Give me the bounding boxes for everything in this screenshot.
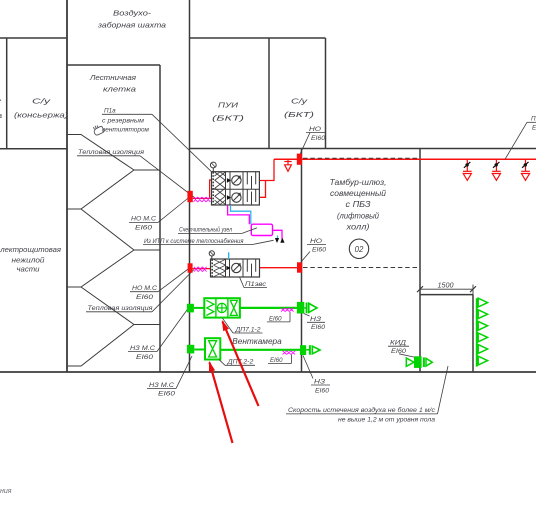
- cyan pipe out of meter: [277, 236, 279, 241]
- room label: С/у (консьержа): [14, 97, 69, 120]
- leader НО EI60 lower: [301, 252, 310, 263]
- label Тепловая изоляция lower: [86, 305, 153, 312]
- green node left ДП7.2-2 (on wall x=189.5): [187, 345, 194, 354]
- svg-text:(консьержа): (консьержа): [14, 111, 69, 120]
- label П1 fragment top right: [527, 116, 536, 132]
- label П1эвс: [244, 281, 267, 288]
- svg-text:02: 02: [355, 245, 364, 254]
- wall: staircase top, y=65: [67, 64, 160, 66]
- red annotation arrow to ДП7.2-2: [210, 363, 233, 444]
- green duct to damper box ДП7.1-2: [194, 307, 204, 309]
- svg-text:КИД: КИД: [390, 340, 407, 347]
- svg-text:Из ИТП к системе теплоснабжен: Из ИТП к системе теплоснабжения: [144, 237, 244, 245]
- svg-text:е: е: [0, 96, 1, 105]
- room label: Венткамера: [232, 336, 282, 346]
- leader ДП7.2-2: [219, 360, 225, 366]
- wall: left rooms divider y=148.7: [0, 148, 67, 150]
- wall: niche top y=294.6: [420, 294, 473, 296]
- svg-text:(БКТ): (БКТ): [284, 110, 315, 119]
- wall: tambour room left x=301.5: [301, 149, 303, 373]
- svg-text:EI60: EI60: [311, 135, 326, 142]
- KID valve assembly: [406, 356, 432, 368]
- heat meter box (Счетчительный узел): [251, 224, 272, 235]
- wall: top-right horizontal y=38: [190, 37, 326, 39]
- leader Счетчительный узел: [242, 228, 257, 234]
- smoke damper unit ДП7.2-2: [205, 338, 220, 359]
- svg-text:Е: Е: [532, 125, 536, 132]
- svg-text:1500: 1500: [438, 283, 454, 290]
- red pipe AHU П1а row2 out: [260, 181, 266, 198]
- svg-text:НЗ М.С: НЗ М.С: [130, 345, 156, 352]
- svg-text:П1эвс: П1эвс: [245, 281, 267, 288]
- note Скорость истечения воздуха: [286, 406, 438, 424]
- red pipe into AHU П1а: [193, 180, 212, 198]
- svg-text:с резервным: с резервным: [102, 118, 145, 125]
- edge text fragment е: [0, 96, 1, 105]
- label НО М.С EI60 second: [130, 285, 158, 301]
- svg-text:EI60: EI60: [158, 391, 176, 398]
- staircase duct zigzag: [67, 135, 160, 367]
- cyan heat pipe from AHU: [231, 205, 251, 224]
- green node right ДП7.2-2 (on wall x=301.5): [300, 345, 306, 355]
- room label: ПУИ (БКТ): [212, 101, 245, 123]
- wall: tambour room right x=420: [419, 149, 421, 373]
- red diffuser 1 at x=467: [463, 159, 472, 180]
- wall: small vertical x=6.7: [6, 38, 8, 149]
- red riser from AHU П1а: [260, 159, 274, 180]
- svg-text:ПУИ: ПУИ: [218, 101, 239, 110]
- green duct to damper box ДП7.2-2: [194, 349, 205, 351]
- wall: shaft right / ventchamber left, x=189.5: [189, 0, 191, 372]
- edge text fragment ния: [0, 488, 12, 495]
- hand symbol: [92, 123, 105, 136]
- gauge on AHU П1эвс: [209, 251, 214, 259]
- svg-text:EI60: EI60: [269, 315, 282, 322]
- leader НО М.С second to damper: [158, 268, 190, 292]
- green outlet ДП7.1-2: [304, 303, 317, 314]
- insulation hatch on green duct 1: [281, 308, 294, 312]
- svg-text:Тепловая изоляция: Тепловая изоляция: [78, 149, 145, 156]
- leader НЗ EI60 right1: [304, 314, 310, 317]
- wall: long corridor wall y=148.5: [190, 148, 536, 150]
- room label: Тамбур-шлюз совмещенный с ПБЗ (лифтовый холл): [330, 178, 387, 232]
- room label: Лестничная клетка: [89, 73, 136, 94]
- svg-text:НО: НО: [309, 126, 321, 133]
- svg-text:П1: П1: [531, 116, 536, 123]
- svg-text:Лестничная: Лестничная: [89, 73, 136, 82]
- red supply main line y=159.3: [274, 158, 536, 160]
- dimension 1500: [417, 283, 476, 295]
- svg-text:НО М.С: НО М.С: [132, 285, 157, 292]
- green duct ДП7.1-2 to wall: [240, 307, 297, 309]
- label EI60 hatch1: [267, 312, 290, 322]
- label EI60 hatch2: [268, 355, 292, 364]
- label КИД EI60: [388, 340, 409, 356]
- red diffuser 3 at x=525: [521, 159, 530, 180]
- label Из ИТП к системе теплоснабжения: [143, 237, 252, 245]
- leader НО М.С upper to damper: [158, 197, 190, 222]
- cyan sensor tick on AHU П1эвс: [228, 252, 230, 259]
- duct dashed inside tambour room lower: [303, 267, 419, 269]
- AHU П1эвс evacuation supply unit: [211, 259, 260, 277]
- svg-text:Воздухо-: Воздухо-: [113, 9, 152, 18]
- svg-text:EI60: EI60: [135, 225, 153, 232]
- leader НЗ EI60 right2: [303, 356, 313, 379]
- svg-text:ДП7.1-2: ДП7.1-2: [234, 326, 261, 333]
- heat insulation hatch on pipe (lower): [194, 267, 207, 272]
- svg-text:EI60: EI60: [315, 387, 330, 394]
- leader П1а to AHU: [152, 114, 212, 171]
- fire damper НО EI60 top (red bar on wall x=301.5): [297, 154, 302, 165]
- svg-text:Скорость истечения воздуха не: Скорость истечения воздуха не более 1 м/…: [288, 406, 436, 414]
- label ДП7.1-2: [233, 326, 263, 333]
- svg-text:Электрощитовая: Электрощитовая: [0, 245, 61, 254]
- valve up (black triangle): [281, 238, 285, 242]
- leader note to niche: [438, 366, 449, 414]
- svg-text:НО М.С: НО М.С: [131, 216, 156, 223]
- leader Тепловая изоляция lower: [152, 270, 194, 312]
- svg-text:НЗ: НЗ: [310, 316, 321, 323]
- svg-text:Венткамера: Венткамера: [232, 336, 282, 346]
- svg-text:ния: ния: [0, 488, 12, 495]
- heat insulation hatch on pipe (upper): [194, 197, 211, 202]
- valve down (black triangle): [275, 238, 279, 242]
- svg-text:нежилой: нежилой: [12, 256, 46, 265]
- svg-text:заборная шахта: заборная шахта: [97, 21, 166, 30]
- svg-text:Тепловая изоляция: Тепловая изоляция: [88, 305, 154, 312]
- duct dashed inside tambour room upper: [303, 157, 419, 159]
- fire damper НО М.С EI60 upper-left (red bar on wall x=189.5): [187, 191, 192, 202]
- wall: WC right x=325.5: [325, 38, 327, 149]
- label Тепловая изоляция upper: [77, 149, 145, 156]
- fire damper НО EI60 lower (red bar on wall x=301.5): [297, 262, 302, 272]
- svg-text:EI60: EI60: [391, 348, 407, 355]
- svg-text:EI60: EI60: [136, 294, 154, 301]
- edge text fragment а: [0, 111, 2, 120]
- svg-text:EI60: EI60: [311, 324, 326, 331]
- svg-text:холл): холл): [345, 223, 370, 232]
- leader П1эвс: [240, 277, 245, 288]
- wall: PUI/WC divider x=269: [268, 38, 270, 149]
- svg-text:С/у: С/у: [291, 97, 309, 106]
- svg-text:(БКТ): (БКТ): [212, 114, 245, 123]
- wall: niche right x=473: [472, 295, 474, 372]
- magenta heat pipe from AHU: [228, 205, 250, 224]
- label НО М.С EI60 upper: [129, 216, 158, 232]
- svg-text:НО: НО: [310, 238, 322, 245]
- label НЗ М.С EI60 bottom: [147, 382, 176, 398]
- wall: staircase right, x=160: [159, 65, 161, 372]
- svg-text:НЗ: НЗ: [314, 379, 325, 386]
- svg-text:вентилятором: вентилятором: [102, 127, 150, 134]
- svg-text:EI60: EI60: [136, 354, 154, 361]
- leader Из ИТП: [252, 240, 274, 244]
- svg-text:EI60: EI60: [312, 247, 327, 254]
- wall: top-left horizontal y=38: [0, 37, 67, 39]
- red pipe П1эвс to damper: [260, 267, 298, 269]
- svg-text:Тамбур-шлюз,: Тамбур-шлюз,: [330, 178, 387, 187]
- red pipe into AHU П1эвс: [193, 268, 210, 270]
- smoke damper unit ДП7.1-2: [204, 298, 240, 317]
- green node left ДП7.1-2 (on wall x=189.5): [187, 304, 194, 313]
- svg-text:а: а: [0, 111, 2, 120]
- green duct ДП7.2-2 to wall: [220, 349, 300, 351]
- room label: Электрощитовая нежилой части: [0, 245, 61, 274]
- leader НО EI60 top: [300, 133, 310, 154]
- red annotation arrow to ДП7.1-2: [223, 322, 259, 407]
- leader НЗ М.С bottom to green node: [176, 356, 192, 389]
- insulation hatch on green duct 2: [283, 351, 296, 355]
- svg-text:(лифтовый: (лифтовый: [337, 212, 380, 221]
- AHU П1а supply unit with reserve fan: [212, 172, 260, 205]
- label НЗ EI60 right1: [307, 316, 326, 331]
- transfer grille column (green triangles): [477, 298, 488, 366]
- leader КИД: [399, 354, 416, 358]
- svg-text:клетка: клетка: [103, 85, 136, 94]
- fire damper НО М.С EI60 lower-left (red bar on wall x=189.5): [188, 263, 193, 272]
- svg-text:с ПБЗ: с ПБЗ: [346, 200, 371, 209]
- svg-text:Счетчительный узел: Счетчительный узел: [179, 225, 232, 233]
- gauge on AHU П1а: [210, 162, 216, 172]
- green node right ДП7.1-2 (on wall x=301.5): [297, 302, 304, 314]
- svg-text:НЗ М.С: НЗ М.С: [149, 382, 175, 389]
- leader ДП7.1-2: [223, 318, 234, 333]
- label ДП7.2-2: [225, 359, 255, 366]
- red diffuser 2 at x=496: [492, 159, 501, 180]
- leader Тепловая изоляция upper: [140, 156, 195, 198]
- wall: floor line y=372: [0, 371, 536, 373]
- room label: С/у (БКТ): [284, 97, 315, 120]
- svg-text:совмещенный: совмещенный: [330, 189, 387, 198]
- label П1а с резервным вентилятором: [102, 108, 152, 134]
- svg-text:части: части: [17, 265, 41, 274]
- room number circle 02: [349, 239, 368, 258]
- svg-text:не выше 1,2 м от уровня пола: не выше 1,2 м от уровня пола: [338, 416, 436, 423]
- wall: air-intake shaft left, x=67: [66, 0, 68, 372]
- svg-text:С/у: С/у: [32, 97, 52, 106]
- label НО EI60 top: [306, 126, 326, 142]
- label НЗ EI60 right2: [311, 379, 330, 395]
- label НО EI60 lower: [307, 238, 327, 254]
- green outlet ДП7.2-2: [306, 345, 320, 355]
- svg-text:EI60: EI60: [270, 357, 283, 364]
- red diffuser small at x=288: [284, 159, 291, 171]
- magenta pipe out of meter: [273, 230, 283, 240]
- leader НЗ М.С mid to green node: [157, 307, 190, 352]
- svg-text:П1а: П1а: [104, 108, 116, 115]
- label Счетчительный узел: [178, 225, 242, 233]
- leader to П1 label top right: [505, 122, 527, 159]
- label НЗ М.С EI60 mid: [128, 345, 157, 361]
- room label: Воздухо-заборная шахта: [97, 9, 166, 30]
